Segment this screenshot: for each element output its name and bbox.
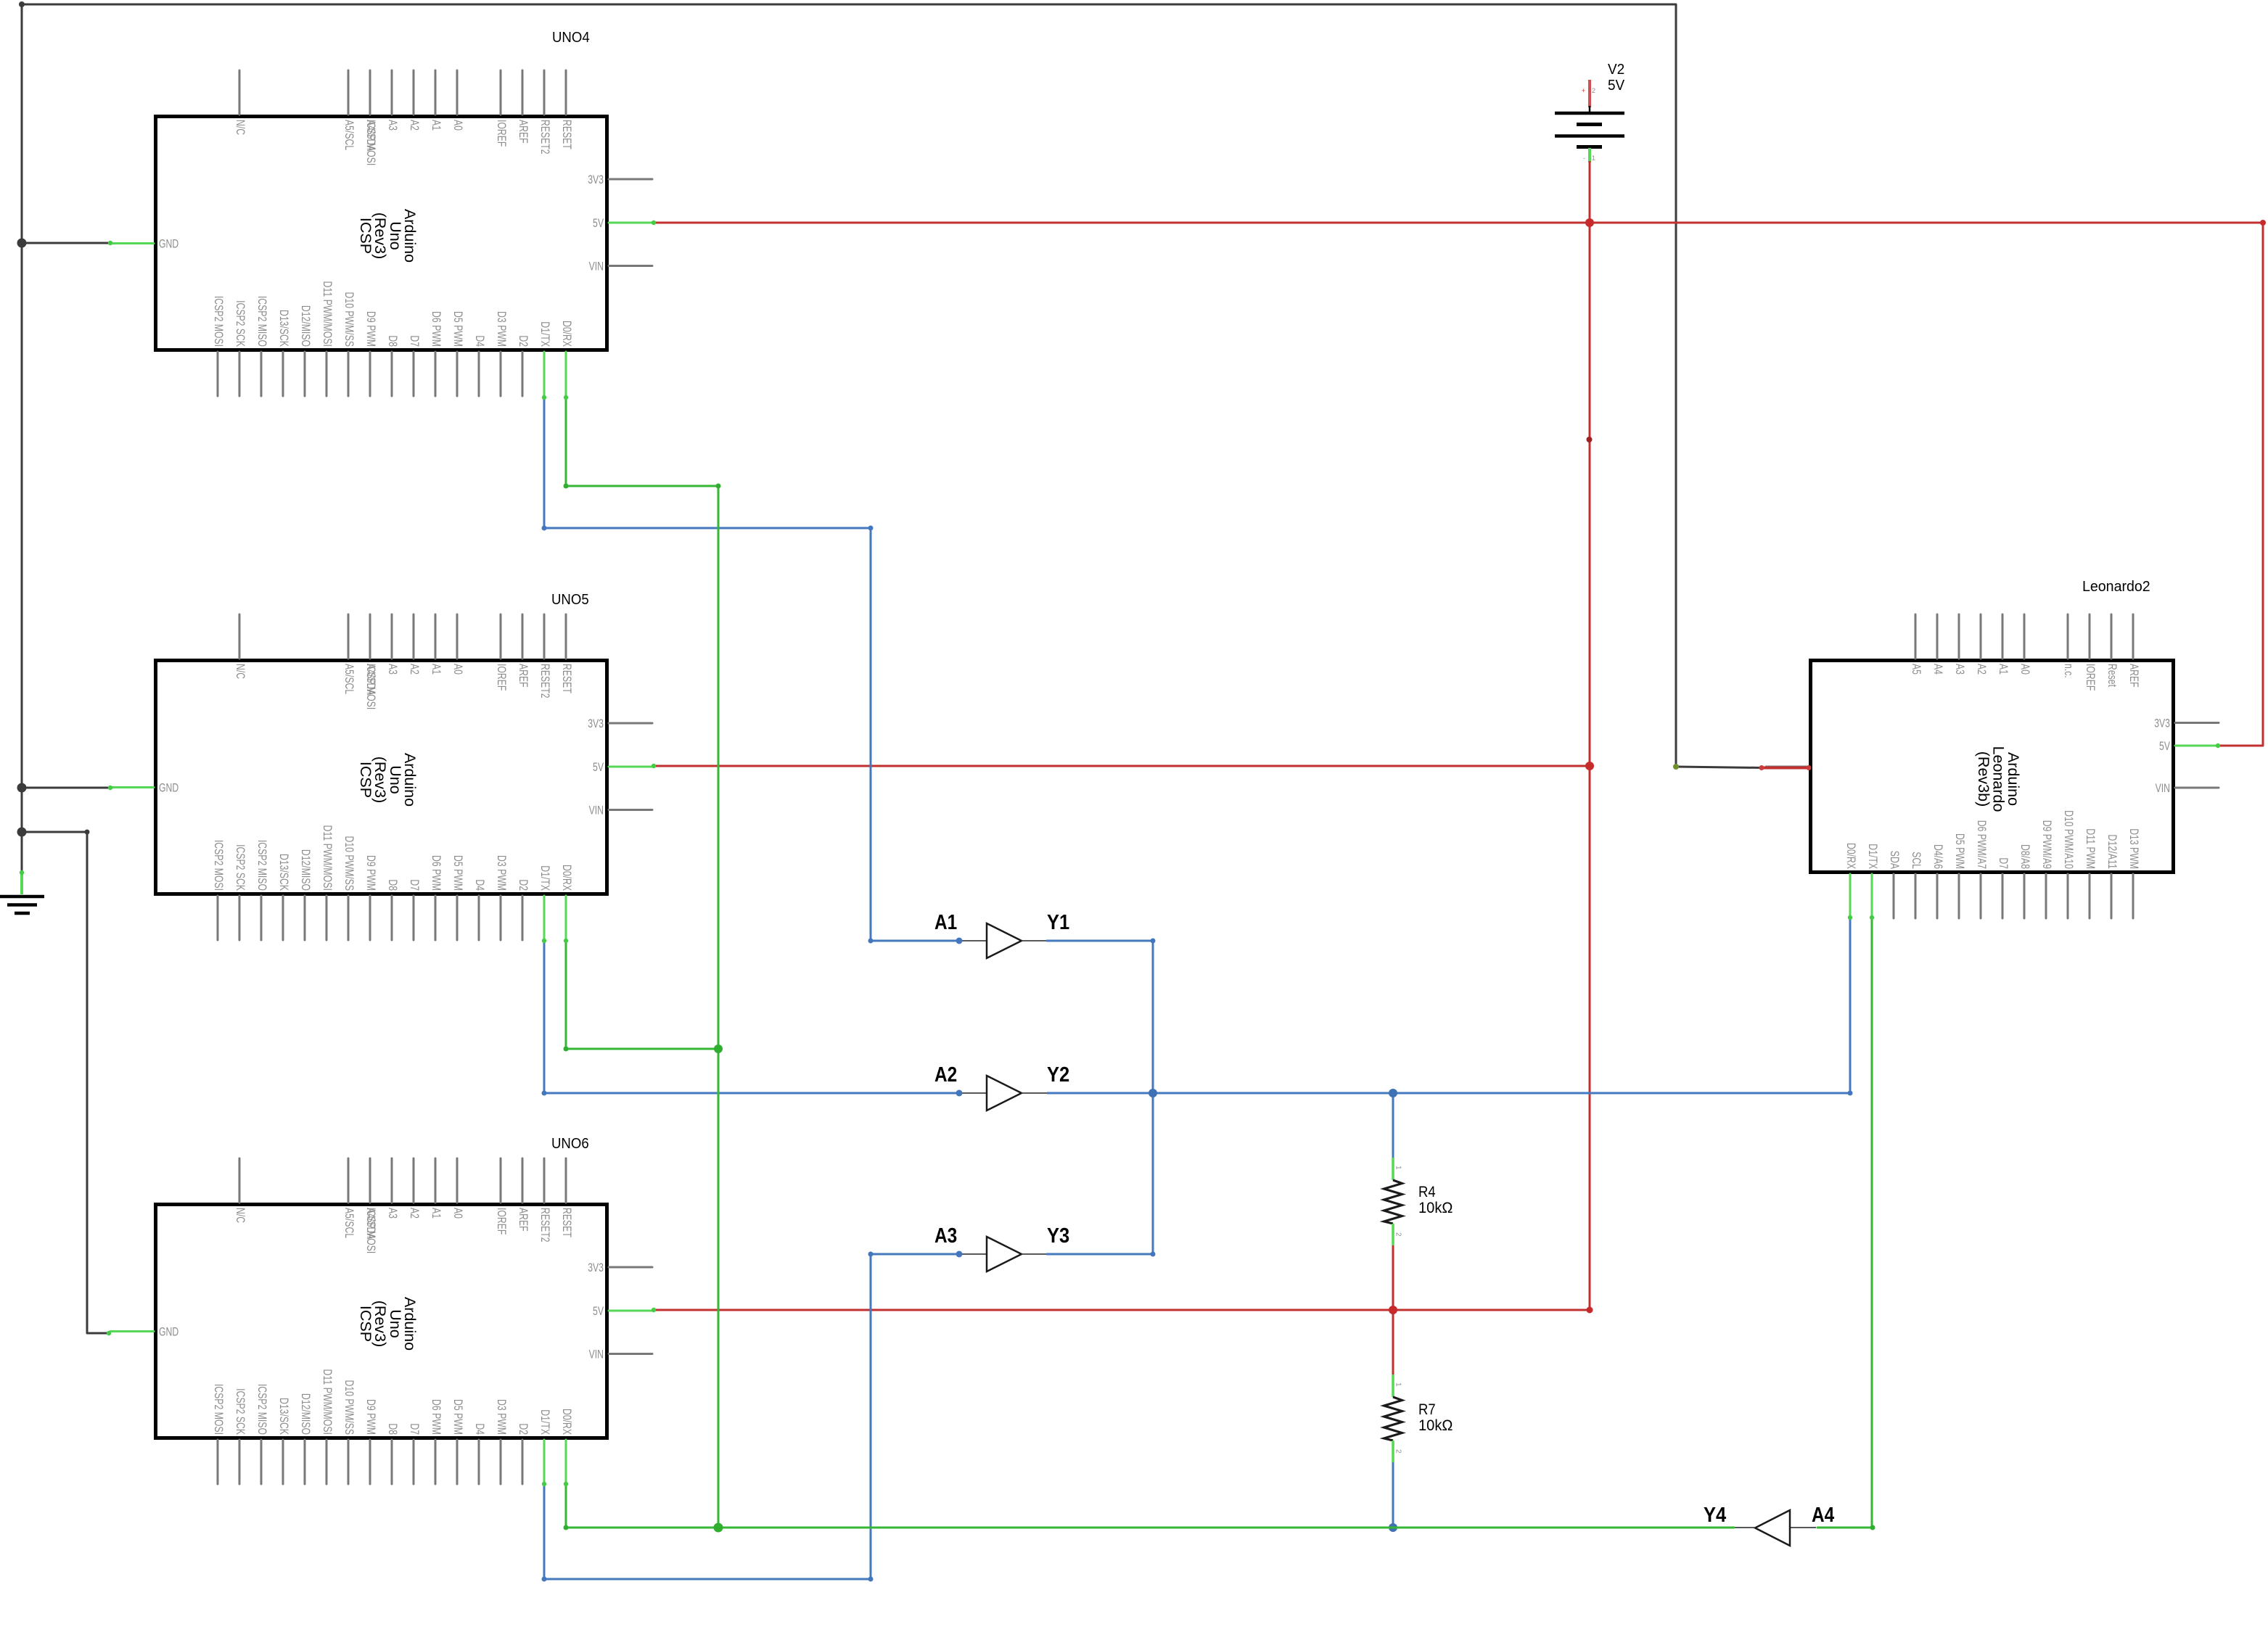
junction green on Y4 bus <box>714 1523 723 1533</box>
svg-text:D13/SCK: D13/SCK <box>277 854 291 891</box>
junction 5V battery/top bus <box>1585 218 1594 227</box>
pin D7 of Leonardo2 <box>2002 874 2004 918</box>
pin D2 of UNO4 <box>522 352 524 396</box>
wire Leonardo D0/RX down <box>1849 918 1852 1093</box>
pin GND of Leonardo2 <box>1765 766 1809 768</box>
pin Reset of Leonardo2 <box>2111 614 2113 659</box>
svg-text:VIN: VIN <box>589 804 604 817</box>
pin D8 of UNO6 <box>391 1440 393 1484</box>
wire UNO5 D1/TX to A2 input <box>544 941 959 1093</box>
green endpoint at UNO6 GND stub <box>107 1331 111 1335</box>
svg-text:D7: D7 <box>408 1423 422 1435</box>
svg-text:+: + <box>1582 87 1585 94</box>
resistor R7 10k&#937; <box>1384 1375 1402 1462</box>
pin A4/SDA of UNO6 <box>369 1158 371 1203</box>
wire UNO4 D0/RX long vertical <box>566 397 718 1528</box>
svg-text:D4: D4 <box>473 335 487 347</box>
svg-text:AREF: AREF <box>2127 664 2141 688</box>
arduino uno UNO5 <box>110 614 652 940</box>
wire UNO6 5V <box>654 1309 1590 1311</box>
buffer Y2 output pin line <box>1022 1092 1047 1094</box>
corner dot blue <box>542 1577 547 1582</box>
junction 5V UNO5 row <box>1585 762 1594 770</box>
pin D2 of UNO6 <box>522 1440 524 1484</box>
pin VIN of UNO5 <box>609 809 652 811</box>
pin 3V3 of UNO5 <box>609 722 652 725</box>
svg-text:n.c.: n.c. <box>2062 664 2076 678</box>
svg-text:Leonardo2: Leonardo2 <box>2082 579 2150 595</box>
ground bar 1 <box>0 895 44 899</box>
svg-text:1: 1 <box>1394 1382 1402 1387</box>
svg-text:D11 PWM/MOSI: D11 PWM/MOSI <box>321 1369 334 1435</box>
corner dot blue <box>868 1252 874 1257</box>
pin A3 of UNO5 <box>391 614 393 659</box>
battery V2 5V <box>1555 62 1625 162</box>
svg-text:D1/TX: D1/TX <box>1866 844 1880 869</box>
pin SDA of Leonardo2 <box>1893 874 1895 918</box>
pin D1/TX of UNO5 <box>543 896 546 940</box>
svg-text:N/C: N/C <box>234 1208 247 1223</box>
svg-text:D0/RX: D0/RX <box>560 865 574 891</box>
pin D6 PWM of UNO6 <box>435 1440 437 1484</box>
svg-text:D11 PWM/MOSI: D11 PWM/MOSI <box>321 825 334 891</box>
svg-text:AREF: AREF <box>517 120 530 144</box>
pin A2 of UNO4 <box>413 70 415 115</box>
svg-text:A5/SCL: A5/SCL <box>342 1208 356 1238</box>
svg-text:D9 PWM: D9 PWM <box>364 311 378 347</box>
ground bar 2 <box>7 903 37 907</box>
junction GND at UNO4 row <box>17 239 27 248</box>
svg-text:D6 PWM: D6 PWM <box>430 1399 443 1435</box>
svg-text:ICSP MOSI: ICSP MOSI <box>364 1208 378 1253</box>
corner dot blue <box>1151 1252 1156 1257</box>
svg-text:D5 PWM: D5 PWM <box>451 311 465 347</box>
pin n.c. of Leonardo2 <box>2067 614 2069 659</box>
svg-text:5V: 5V <box>593 760 604 774</box>
svg-text:A5: A5 <box>1910 664 1923 675</box>
pin D10 PWM/SS of UNO5 <box>348 896 350 940</box>
svg-text:A1: A1 <box>430 120 443 131</box>
junction GND at UNO5 row <box>17 783 27 793</box>
svg-text:3V3: 3V3 <box>588 1261 604 1274</box>
buffer U1 (A1/Y1) <box>959 923 1047 958</box>
corner dot blue <box>868 939 874 944</box>
buffer A4 input pin line <box>1790 1527 1816 1528</box>
pin D13/SCK of UNO6 <box>282 1440 284 1484</box>
wire left vertical GND bus <box>21 243 23 788</box>
pin A3 of UNO6 <box>391 1158 393 1203</box>
red wire segment endpoint on battery vertical <box>1587 437 1593 442</box>
svg-text:A5/SCL: A5/SCL <box>342 120 356 150</box>
pin A5/SCL of UNO6 <box>348 1158 350 1203</box>
svg-text:D8: D8 <box>386 335 400 347</box>
svg-text:IOREF: IOREF <box>495 1208 509 1235</box>
corner dot blue at Leonardo D0/RX column <box>1848 1091 1853 1096</box>
wire to ground symbol <box>21 832 23 873</box>
svg-text:A0: A0 <box>451 1208 465 1219</box>
pin D10 PWM/A10 of Leonardo2 <box>2067 874 2069 918</box>
svg-text:ICSP: ICSP <box>357 218 374 254</box>
svg-text:D9 PWM/A9: D9 PWM/A9 <box>2040 820 2054 869</box>
svg-text:D12/MISO: D12/MISO <box>299 849 313 891</box>
svg-text:D8: D8 <box>386 879 400 891</box>
svg-text:2: 2 <box>1394 1232 1402 1237</box>
arduino uno UNO4 <box>110 70 652 396</box>
pin D13/SCK of UNO5 <box>282 896 284 940</box>
svg-text:A1: A1 <box>1997 664 2010 675</box>
pin AREF of Leonardo2 <box>2132 614 2135 659</box>
pin D9 PWM of UNO5 <box>369 896 371 940</box>
corner dot top-left <box>19 1 25 7</box>
svg-text:ICSP2 SCK: ICSP2 SCK <box>234 844 247 891</box>
buffer U4 (A4/Y4, pointing left) <box>1730 1510 1816 1546</box>
svg-text:IOREF: IOREF <box>495 120 509 147</box>
battery V2 short plate bottom <box>1577 145 1602 149</box>
svg-text:D9 PWM: D9 PWM <box>364 1399 378 1435</box>
corner dot blue <box>542 526 547 531</box>
red wire endpoint <box>1759 765 1764 770</box>
corner dot green <box>1870 1525 1875 1530</box>
svg-text:A2: A2 <box>408 1208 422 1219</box>
svg-text:R4: R4 <box>1418 1184 1436 1200</box>
pin D8 of UNO4 <box>391 352 393 396</box>
pin D11 PWM/MOSI of UNO6 <box>326 1440 328 1484</box>
svg-text:D5 PWM: D5 PWM <box>1953 833 1967 869</box>
svg-text:ICSP2 MISO: ICSP2 MISO <box>255 840 269 891</box>
wire A4 input from Leonardo <box>1817 1527 1873 1529</box>
svg-text:D1/TX: D1/TX <box>538 321 552 347</box>
corner dot green <box>564 1047 569 1052</box>
svg-text:ICSP MOSI: ICSP MOSI <box>364 120 378 165</box>
svg-text:ICSP2 MOSI: ICSP2 MOSI <box>212 840 226 891</box>
wire UNO5 D0/RX branch <box>566 941 718 1049</box>
svg-text:3V3: 3V3 <box>588 173 604 186</box>
pin VIN of UNO6 <box>609 1353 652 1355</box>
svg-text:UNO6: UNO6 <box>551 1136 589 1152</box>
part text Arduino Uno (Rev3) ICSP of UNO6 <box>357 1297 419 1351</box>
buffer Y3 output pin line <box>1022 1253 1047 1255</box>
ground symbol <box>0 873 44 913</box>
pin ICSP2 MOSI of UNO4 <box>217 352 219 396</box>
svg-text:D12/A11: D12/A11 <box>2105 834 2119 869</box>
green endpoint at pin stub <box>542 939 546 943</box>
svg-text:D7: D7 <box>1997 857 2010 869</box>
corner dot blue <box>1151 939 1156 944</box>
svg-text:A1: A1 <box>934 911 957 934</box>
pin D1/TX of Leonardo2 <box>1871 874 1873 918</box>
svg-text:3V3: 3V3 <box>588 717 604 730</box>
wire red segment at Leonardo GND <box>1762 767 1809 770</box>
pin 5V of UNO5 <box>609 766 652 768</box>
svg-text:D5 PWM: D5 PWM <box>451 1399 465 1435</box>
R7 pin 2 stub <box>1392 1441 1394 1462</box>
svg-text:A2: A2 <box>408 120 422 131</box>
wire R4 pin1 to Y2 bus <box>1392 1093 1394 1158</box>
svg-text:2: 2 <box>1394 1449 1402 1454</box>
svg-text:1: 1 <box>1592 154 1595 162</box>
corner dot <box>85 830 90 835</box>
pin RESET of UNO4 <box>565 70 567 115</box>
svg-text:D1/TX: D1/TX <box>538 1409 552 1435</box>
wire battery minus vertical <box>1589 161 1591 1310</box>
pin D6 PWM of UNO4 <box>435 352 437 396</box>
endpoint 5V wire at UNO6 row <box>1587 1307 1593 1314</box>
wire Leonardo D1/TX down to A4 <box>1871 918 1873 1528</box>
svg-text:(Rev3b): (Rev3b) <box>1975 751 1992 807</box>
svg-text:D2: D2 <box>517 335 530 347</box>
ground bar 3 <box>15 912 30 915</box>
pin ICSP2 SCK of UNO4 <box>239 352 241 396</box>
svg-text:D7: D7 <box>408 335 422 347</box>
corner dot blue <box>868 1577 874 1582</box>
part text Arduino Uno (Rev3) ICSP of UNO4 <box>357 209 419 263</box>
pin N/C of UNO6 <box>239 1158 241 1203</box>
svg-text:ICSP: ICSP <box>357 762 374 798</box>
pin A5 of Leonardo2 <box>1915 614 1917 659</box>
pin 3V3 of Leonardo2 <box>2175 722 2219 724</box>
wire R7 pin1 to 5V <box>1392 1310 1394 1375</box>
pin A1 of Leonardo2 <box>2002 614 2004 659</box>
wire UNO6 D1/TX to A3 input <box>544 1254 959 1579</box>
svg-text:D8/A8: D8/A8 <box>2018 844 2032 869</box>
R7 zigzag body <box>1384 1397 1402 1441</box>
svg-text:A1: A1 <box>430 664 443 675</box>
junction GND to UNO6 branch <box>17 828 27 837</box>
green endpoint at UNO5 5V stub <box>652 764 656 768</box>
green endpoint at pin stub <box>564 1482 568 1486</box>
wire GND net top loop <box>22 4 1676 767</box>
svg-text:D11 PWM: D11 PWM <box>2084 828 2098 869</box>
svg-text:Reset: Reset <box>2105 664 2119 687</box>
pin D2 of UNO5 <box>522 896 524 940</box>
pin D4 of UNO4 <box>478 352 480 396</box>
green endpoint at pin stub <box>1870 915 1874 920</box>
svg-text:Y1: Y1 <box>1047 911 1069 934</box>
green endpoint at UNO5 GND stub <box>108 786 112 790</box>
pin D0/RX of UNO5 <box>565 896 567 940</box>
svg-text:D12/MISO: D12/MISO <box>299 1393 313 1435</box>
svg-text:V2: V2 <box>1608 62 1624 78</box>
svg-text:D7: D7 <box>408 879 422 891</box>
svg-text:Y3: Y3 <box>1047 1224 1069 1248</box>
svg-text:5V: 5V <box>1608 78 1625 94</box>
pin D5 PWM of UNO6 <box>456 1440 459 1484</box>
svg-text:D0/RX: D0/RX <box>560 1409 574 1435</box>
battery V2 long plate top <box>1555 112 1624 115</box>
buffer A1 input pin line <box>959 940 987 941</box>
svg-text:AREF: AREF <box>517 1208 530 1232</box>
svg-text:A2: A2 <box>408 664 422 675</box>
svg-text:D13 PWM: D13 PWM <box>2127 828 2141 869</box>
pin D10 PWM/SS of UNO4 <box>348 352 350 396</box>
pin ICSP2 SCK of UNO6 <box>239 1440 241 1484</box>
svg-text:D4: D4 <box>473 1423 487 1435</box>
pin D3 PWM of UNO4 <box>500 352 502 396</box>
svg-text:ICSP2 MOSI: ICSP2 MOSI <box>212 296 226 347</box>
pin N/C of UNO5 <box>239 614 241 659</box>
junction 5V R4/R7 row <box>1389 1306 1397 1314</box>
pin D7 of UNO4 <box>413 352 415 396</box>
svg-text:D6 PWM/A7: D6 PWM/A7 <box>1975 820 1989 869</box>
pin A3 of Leonardo2 <box>1958 614 1960 659</box>
battery V2 short plate upper <box>1577 123 1602 126</box>
pin A2 of UNO5 <box>413 614 415 659</box>
svg-text:GND: GND <box>159 781 178 795</box>
pin IOREF of UNO4 <box>500 70 502 115</box>
junction blue R4 <box>1389 1089 1397 1097</box>
svg-text:R7: R7 <box>1418 1401 1436 1418</box>
svg-text:D10 PWM/SS: D10 PWM/SS <box>342 292 356 347</box>
svg-text:N/C: N/C <box>234 664 247 679</box>
svg-text:A4: A4 <box>1931 664 1945 675</box>
pin RESET2 of UNO6 <box>543 1158 546 1203</box>
arduino leonardo Leonardo2 <box>1765 614 2219 918</box>
svg-text:D3 PWM: D3 PWM <box>495 1399 509 1435</box>
pin 5V of UNO4 <box>609 222 652 224</box>
green endpoint at pin stub <box>564 395 568 400</box>
endpoint blue at A3 <box>956 1251 963 1258</box>
green endpoint at UNO4 GND stub <box>108 241 112 245</box>
svg-text:A0: A0 <box>2018 664 2032 675</box>
pin D7 of UNO6 <box>413 1440 415 1484</box>
svg-text:RESET: RESET <box>560 664 574 693</box>
pin D4 of UNO6 <box>478 1440 480 1484</box>
svg-text:D4: D4 <box>473 879 487 891</box>
pin A0 of Leonardo2 <box>2023 614 2026 659</box>
pin IOREF of UNO6 <box>500 1158 502 1203</box>
pin D9 PWM/A9 of Leonardo2 <box>2045 874 2047 918</box>
buffer U2 (A2/Y2) <box>959 1076 1047 1110</box>
svg-text:D2: D2 <box>517 1423 530 1435</box>
pin 3V3 of UNO4 <box>609 178 652 181</box>
green endpoint at pin stub <box>564 939 568 943</box>
wire R4 pin2 to 5V <box>1392 1245 1394 1310</box>
pin D12/MISO of UNO4 <box>304 352 306 396</box>
svg-text:ICSP2 SCK: ICSP2 SCK <box>234 1388 247 1435</box>
svg-text:ICSP2 MOSI: ICSP2 MOSI <box>212 1384 226 1435</box>
svg-text:D0/RX: D0/RX <box>1844 843 1858 869</box>
svg-text:D10 PWM/A10: D10 PWM/A10 <box>2062 810 2076 869</box>
buffer A2 input pin line <box>959 1092 987 1094</box>
pin D0/RX of Leonardo2 <box>1849 874 1852 918</box>
pin A5/SCL of UNO5 <box>348 614 350 659</box>
wire UNO6 GND <box>22 832 109 1333</box>
green endpoint at ground symbol stub <box>20 870 24 875</box>
pin IOREF of Leonardo2 <box>2089 614 2091 659</box>
pin D12/MISO of UNO6 <box>304 1440 306 1484</box>
pin A2 of UNO6 <box>413 1158 415 1203</box>
pin A1 of UNO4 <box>435 70 437 115</box>
buffer U3 (A3/Y3) <box>959 1237 1047 1272</box>
pin ICSP2 MOSI of UNO5 <box>217 896 219 940</box>
wire UNO4 D1/TX to A1 input <box>544 397 959 941</box>
svg-text:A3: A3 <box>386 120 400 131</box>
pin D10 PWM/SS of UNO6 <box>348 1440 350 1484</box>
pin ICSP2 MISO of UNO4 <box>260 352 263 396</box>
pin RESET of UNO6 <box>565 1158 567 1203</box>
pin ICSP2 SCK of UNO5 <box>239 896 241 940</box>
pin D13 PWM of Leonardo2 <box>2132 874 2135 918</box>
pin D4 of UNO5 <box>478 896 480 940</box>
buffer A3 input pin line <box>959 1253 987 1255</box>
pin RESET2 of UNO5 <box>543 614 546 659</box>
svg-text:ICSP MOSI: ICSP MOSI <box>364 664 378 709</box>
svg-text:10kΩ: 10kΩ <box>1418 1417 1453 1434</box>
pin D11 PWM of Leonardo2 <box>2089 874 2091 918</box>
svg-text:A2: A2 <box>1975 664 1989 675</box>
pin 5V of Leonardo2 <box>2175 745 2219 747</box>
pin A0 of UNO4 <box>456 70 459 115</box>
pin D1/TX of UNO6 <box>543 1440 546 1484</box>
pin D12/MISO of UNO5 <box>304 896 306 940</box>
svg-text:D13/SCK: D13/SCK <box>277 310 291 347</box>
svg-text:D1/TX: D1/TX <box>538 865 552 891</box>
pin 3V3 of UNO6 <box>609 1266 652 1269</box>
wire Y2 output bus <box>1047 1092 1850 1095</box>
pin D5 PWM of UNO5 <box>456 896 459 940</box>
svg-text:D4/A6: D4/A6 <box>1931 844 1945 869</box>
svg-text:D6 PWM: D6 PWM <box>430 311 443 347</box>
svg-text:ICSP2 MISO: ICSP2 MISO <box>255 1384 269 1435</box>
pin A4 of Leonardo2 <box>1936 614 1939 659</box>
svg-text:A3: A3 <box>934 1224 957 1248</box>
wire GND bus segment <box>21 788 23 832</box>
pin D12/A11 of Leonardo2 <box>2111 874 2113 918</box>
svg-text:A1: A1 <box>430 1208 443 1219</box>
svg-text:RESET: RESET <box>560 1208 574 1237</box>
svg-text:N/C: N/C <box>234 120 247 135</box>
corner dot blue <box>868 526 874 531</box>
green endpoint at Leonardo 5V stub <box>2216 743 2220 748</box>
wire to Leonardo GND <box>1676 767 1762 768</box>
pin D6 PWM of UNO5 <box>435 896 437 940</box>
pin VIN of Leonardo2 <box>2175 787 2219 789</box>
wire Y1/Y3 outputs vertical tie <box>1047 941 1153 1254</box>
pin D6 PWM/A7 of Leonardo2 <box>1980 874 1982 918</box>
svg-text:UNO5: UNO5 <box>551 592 589 608</box>
part text Arduino Leonardo (Rev3b) <box>1975 746 2022 812</box>
pin RESET2 of UNO4 <box>543 70 546 115</box>
pin 5V of UNO6 <box>609 1310 652 1312</box>
green endpoint at pin stub <box>542 395 546 400</box>
pin A4/SDA of UNO4 <box>369 70 371 115</box>
pin D11 PWM/MOSI of UNO5 <box>326 896 328 940</box>
svg-text:A4: A4 <box>1812 1504 1834 1527</box>
pin SCL of Leonardo2 <box>1915 874 1917 918</box>
corner dot green <box>716 484 721 489</box>
wire R7 pin2 to Y4 bus <box>1392 1462 1394 1528</box>
svg-text:D10 PWM/SS: D10 PWM/SS <box>342 836 356 891</box>
corner dot at Leonardo GND branch <box>1673 764 1679 770</box>
junction blue R7 on green bus <box>1389 1523 1397 1532</box>
svg-text:ICSP2 MISO: ICSP2 MISO <box>255 296 269 347</box>
pin ICSP2 MISO of UNO6 <box>260 1440 263 1484</box>
pin D8 of UNO5 <box>391 896 393 940</box>
svg-text:D0/RX: D0/RX <box>560 321 574 347</box>
wire UNO5 GND <box>22 787 110 789</box>
pin D9 PWM of UNO6 <box>369 1440 371 1484</box>
svg-text:3V3: 3V3 <box>2154 717 2170 730</box>
part text Arduino Uno (Rev3) ICSP of UNO5 <box>357 753 419 807</box>
green endpoint at pin stub <box>1848 915 1852 920</box>
pin AREF of UNO4 <box>522 70 524 115</box>
pin D8/A8 of Leonardo2 <box>2023 874 2026 918</box>
pin GND of UNO6 <box>110 1330 154 1332</box>
svg-text:A3: A3 <box>1953 664 1967 675</box>
pin A0 of UNO5 <box>456 614 459 659</box>
corner dot 5V top right <box>2260 220 2266 226</box>
svg-text:GND: GND <box>159 237 178 251</box>
